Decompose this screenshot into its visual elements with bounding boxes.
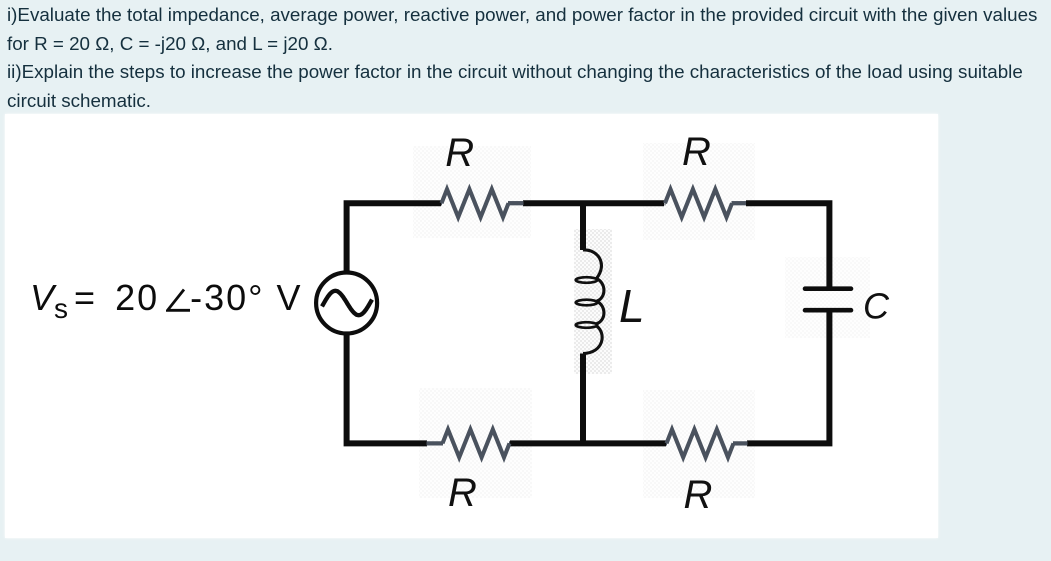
svg-text:R: R [684,473,713,517]
svg-text:C: C [863,286,890,327]
svg-text:R: R [445,131,474,175]
svg-text:R: R [682,130,711,174]
svg-text:L: L [619,280,645,332]
svg-text:R: R [448,471,477,515]
